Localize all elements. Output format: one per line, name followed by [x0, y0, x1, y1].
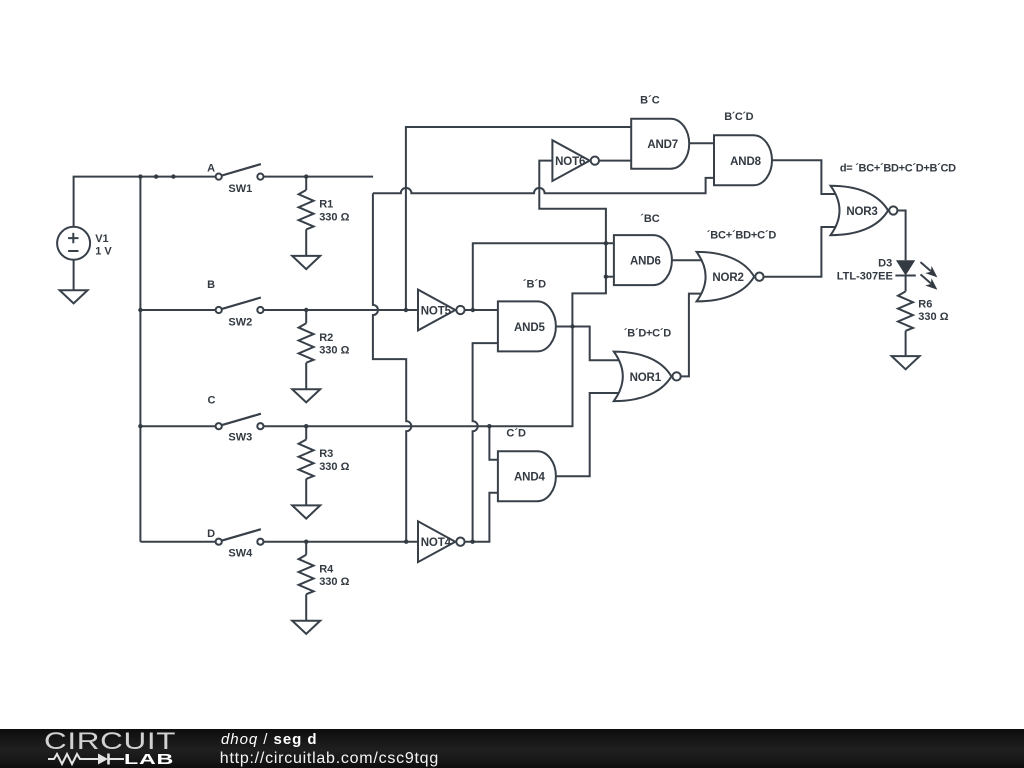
svg-text:330 Ω: 330 Ω	[319, 461, 349, 473]
svg-text:330 Ω: 330 Ω	[918, 311, 948, 323]
svg-text:1 V: 1 V	[95, 246, 112, 258]
svg-text:NOR3: NOR3	[846, 206, 877, 218]
svg-text:SW3: SW3	[228, 432, 252, 444]
svg-text:´B´D+C´D: ´B´D+C´D	[624, 327, 671, 339]
svg-text:SW2: SW2	[228, 317, 252, 329]
svg-text:NOT5: NOT5	[421, 305, 452, 317]
svg-text:´BC: ´BC	[640, 213, 660, 225]
svg-text:NOT6: NOT6	[555, 156, 585, 168]
svg-text:AND5: AND5	[514, 322, 545, 334]
svg-text:C´D: C´D	[506, 427, 526, 439]
svg-text:R4: R4	[319, 563, 334, 575]
svg-text:SW1: SW1	[228, 183, 252, 195]
svg-text:R1: R1	[319, 199, 333, 211]
svg-text:V1: V1	[95, 233, 108, 245]
svg-text:330 Ω: 330 Ω	[319, 576, 349, 588]
svg-text:D3: D3	[878, 258, 892, 270]
svg-text:330 Ω: 330 Ω	[319, 211, 349, 223]
svg-text:R6: R6	[918, 298, 932, 310]
svg-text:NOR2: NOR2	[712, 272, 743, 284]
svg-text:d= ´BC+´BD+C´D+B´CD: d= ´BC+´BD+C´D+B´CD	[840, 163, 956, 175]
svg-text:´BC+´BD+C´D: ´BC+´BD+C´D	[707, 230, 777, 242]
svg-text:B´C: B´C	[640, 94, 660, 106]
svg-text:AND6: AND6	[630, 256, 661, 268]
svg-text:A: A	[207, 162, 215, 174]
svg-text:AND7: AND7	[647, 139, 678, 151]
svg-text:´B´D: ´B´D	[523, 279, 546, 291]
svg-text:C: C	[208, 395, 216, 407]
svg-text:NOT4: NOT4	[421, 537, 452, 549]
svg-text:LTL-307EE: LTL-307EE	[837, 270, 893, 282]
svg-text:AND4: AND4	[514, 472, 545, 484]
svg-text:D: D	[207, 528, 215, 540]
svg-text:NOR1: NOR1	[630, 372, 662, 384]
svg-text:R2: R2	[319, 332, 333, 344]
svg-text:R3: R3	[319, 448, 333, 460]
svg-text:SW4: SW4	[228, 548, 253, 560]
svg-text:330 Ω: 330 Ω	[319, 345, 349, 357]
svg-text:AND8: AND8	[730, 156, 761, 168]
svg-text:B´C´D: B´C´D	[724, 111, 753, 123]
svg-text:B: B	[207, 279, 215, 291]
